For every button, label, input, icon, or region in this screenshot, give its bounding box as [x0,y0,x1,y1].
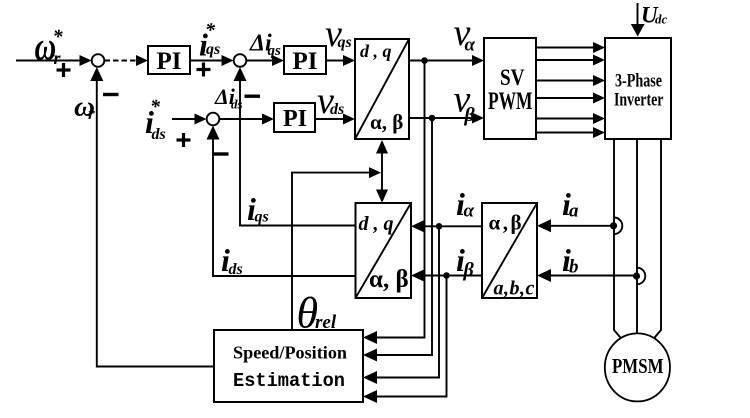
wire PWM gate line 1 [536,47,597,49]
svg-text:*: * [53,26,64,48]
wire PI1 to summing junction 2 [190,60,228,62]
svg-text:r: r [54,48,62,68]
wire PWM gate line 5 [536,118,597,120]
arrowhead into summing junction 2 [222,55,234,66]
svg-text:r: r [88,104,95,123]
svg-text:qs: qs [255,209,269,226]
svg-text:Estimation: Estimation [233,370,345,392]
arrowhead v_qs into block 1 [343,55,355,66]
svg-text:d , q: d , q [359,213,394,235]
arrowhead v_beta into estimator [363,349,377,362]
node i_ds feedback label [221,242,243,278]
node plus sign at summing junction 2 [197,63,211,77]
svg-text:dc: dc [655,12,668,27]
arrowhead i_beta into estimator [363,390,377,403]
arrowhead i_ds into summing junction 3 [207,126,220,140]
summing junction 1 [92,54,105,67]
svg-text:PI: PI [157,48,182,75]
SV PWM block [484,38,536,139]
arrowhead i_b into abc block [537,269,551,282]
wire i_beta feedback to estimator [375,276,447,397]
wire PWM gate line 4 [536,97,597,99]
wire PI2 to dq-alphabeta block 1 [326,60,348,62]
wire i_beta from block 3 to block 2 [424,275,482,277]
wire v_alpha feedback to estimator [375,61,425,338]
dq from alphabeta transform block 2 (current) [356,203,412,298]
arrowhead v_alpha into SV PWM [472,55,484,66]
junction v_beta tap [429,115,436,122]
node v_beta label [454,79,476,127]
node i_qs* reference label [199,20,220,63]
svg-text:α: α [465,35,476,56]
wire omega_r speed feedback to summing junction 1 [97,75,214,367]
node i_alpha label [456,186,475,222]
node minus sign for summing junction 2 feedback [245,95,261,98]
arrowhead into PI box 3 [262,114,274,125]
junction v_alpha tap [421,57,428,64]
wire U_dc input [637,3,639,26]
arrowhead v_beta into SV PWM [472,113,484,124]
arrowhead into summing junction 1 [80,55,92,66]
speed/position estimation block [214,330,363,402]
arrowhead i_alpha into estimator [363,371,377,384]
svg-text:qs: qs [338,34,352,51]
svg-text:PWM: PWM [488,88,533,115]
PI controller box 1 (speed loop) [148,46,190,75]
node plus sign at summing junction 3 [177,133,191,147]
wire PWM gate line 2 [536,59,597,61]
svg-text:qs: qs [206,41,220,58]
node omega_r* reference label [35,23,64,68]
wire inverter phase c output [650,139,661,343]
node i_qs feedback label [247,191,269,227]
svg-text:ds: ds [152,126,166,143]
svg-text:3-Phase: 3-Phase [615,71,662,92]
svg-text:PMSM: PMSM [612,354,664,378]
node v_alpha label [454,12,476,56]
summing junction 2 [234,54,247,67]
svg-text:Inverter: Inverter [614,90,664,111]
junction i_alpha tap [436,223,443,230]
summing junction 3 [207,113,220,126]
wire v_beta from block 1 to SV PWM [409,117,477,119]
svg-text:ds: ds [330,101,344,118]
arrowhead i_beta into block 2 [411,269,425,282]
svg-text:α, β: α, β [370,110,403,134]
PMSM motor [605,333,670,401]
node plus sign at summing junction 1 [57,63,71,77]
arrowhead U_dc into inverter [631,24,645,37]
arrowhead i_a into abc block [537,219,551,232]
node i_b label [562,242,579,278]
arrowhead v_alpha into estimator [363,331,377,344]
wire i_b from sensor to abc block [550,275,633,277]
PI controller box 2 (q-axis current loop) [284,46,326,75]
node delta_i_qs label [249,31,281,60]
svg-text:b: b [569,257,579,278]
svg-text:ds: ds [229,261,243,278]
svg-text:PI: PI [293,48,318,75]
wire i_alpha from block 3 to block 2 [424,225,482,227]
svg-text:a,b,c: a,b,c [494,278,535,300]
node minus sign for summing junction 3 feedback [214,152,229,155]
wire i_alpha feedback to estimator [375,226,439,377]
svg-text:PI: PI [283,106,307,132]
node i_a label [562,186,579,222]
node minus sign for summing junction 1 feedback [103,93,119,96]
node U_dc label [641,3,668,28]
svg-text:Speed/Position: Speed/Position [233,343,347,363]
node i_ds* reference label [145,96,166,143]
arrowhead into summing junction 3 [195,114,207,125]
wire v_beta feedback to estimator [375,118,432,355]
3-phase inverter block [605,38,671,139]
wire i_qs feedback from block 2 to summing junction 2 [240,75,356,226]
wire theta_rel from estimator up to transform blocks [292,173,374,330]
svg-text:d , q: d , q [360,41,392,61]
node v_qs label [325,13,352,55]
arrowhead i_alpha into block 2 [411,220,425,233]
svg-text:α: α [464,201,475,222]
current sensor on phase a [610,218,622,235]
wire i_ds feedback from block 2 to summing junction 3 [213,133,356,276]
svg-text:*: * [205,20,216,42]
svg-text:α,β: α,β [489,211,525,235]
node theta_rel label [297,289,337,338]
wire theta vertical bus between block 1 and block 2 [381,150,383,194]
wire v_alpha from block 1 to SV PWM [409,60,477,62]
current sensor on phase b [633,268,645,285]
svg-text:*: * [150,96,161,118]
arrowhead v_ds into block 1 [343,114,355,125]
svg-text:α, β: α, β [369,266,409,293]
svg-text:β: β [464,104,476,126]
arrowhead theta into theta bus [369,167,381,178]
svg-text:SV: SV [500,65,525,90]
wire i_a from sensor to abc block [550,225,610,227]
arrowhead theta down into block 2 [376,190,388,204]
wire inverter phase a output [614,139,625,343]
svg-text:a: a [569,201,579,222]
wire summing junction 3 to PI box 3 [220,118,269,120]
wire PWM gate line 6 [536,132,597,134]
svg-text:β: β [463,259,475,281]
arrowhead omega_r into summing junction 1 [90,67,103,81]
arrowhead i_qs into summing junction 2 [234,67,247,81]
dq to alphabeta transform block 1 (voltage) [355,39,409,139]
wire summing junction 1 to PI box 1 [105,60,142,62]
arrowhead into PI box 1 [136,55,148,66]
wire PWM gate line 3 [536,80,597,82]
node i_beta label [456,242,475,281]
node delta_i_ds label [214,84,243,112]
wire summing junction 2 to PI box 2 [247,60,279,62]
wire PI3 to block 1 [315,118,348,120]
junction i_beta tap [443,272,450,279]
node omega_r feedback label [74,91,95,124]
alphabeta from abc transform block 3 [482,203,537,300]
wire inverter phase b output [636,139,638,334]
node v_ds label [317,80,344,122]
arrowhead into PI box 2 [272,55,284,66]
arrowhead theta up into block 1 [376,140,388,154]
PI controller box 3 (d-axis current loop) [274,103,315,132]
wire i_ds* input [172,118,200,120]
wire omega_r* input [16,60,82,62]
